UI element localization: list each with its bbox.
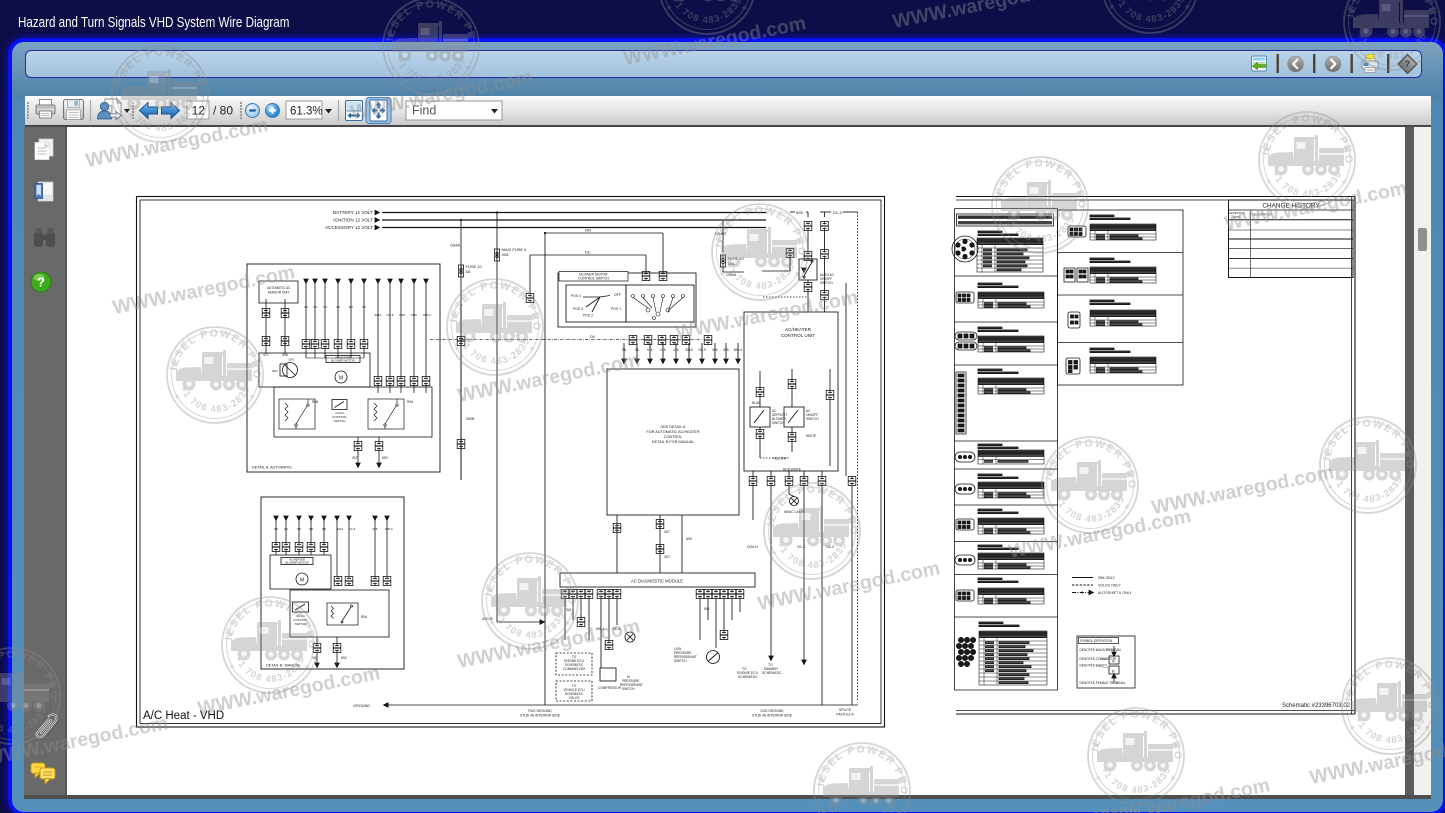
svg-text:DETAIL A: AUTOMATIC: DETAIL A: AUTOMATIC	[252, 466, 292, 470]
svg-text:DENOTES MALE TERMINAL: DENOTES MALE TERMINAL	[1080, 648, 1122, 652]
svg-text:6N5: 6N5	[411, 313, 417, 317]
svg-text:695-A: 695-A	[734, 348, 743, 352]
svg-text:G5AG: G5AG	[715, 231, 726, 236]
svg-text:POS 4: POS 4	[571, 294, 581, 298]
svg-text:M: M	[339, 376, 343, 382]
svg-text:BLOWER MOTOR: BLOWER MOTOR	[285, 561, 308, 565]
svg-text:OC-0: OC-0	[826, 545, 834, 549]
svg-text:ISM ONLY: ISM ONLY	[1098, 576, 1116, 580]
svg-text:SCHEMATIC: SCHEMATIC	[762, 671, 782, 675]
svg-text:POS 2: POS 2	[583, 314, 593, 318]
svg-text:RUS GROUND: RUS GROUND	[528, 709, 552, 713]
svg-text:ACCESSORY 12 VOLT: ACCESSORY 12 VOLT	[325, 225, 373, 230]
svg-text:I50: I50	[274, 527, 278, 531]
svg-text:S5: S5	[362, 305, 366, 309]
svg-text:SWITCH: SWITCH	[674, 659, 687, 663]
svg-text:SWITCH: SWITCH	[295, 622, 307, 626]
svg-text:OC-2: OC-2	[797, 545, 805, 549]
svg-text:I56: I56	[297, 527, 301, 531]
svg-text:C66: C66	[288, 358, 294, 362]
svg-text:DN: DN	[585, 228, 591, 233]
svg-text:300B: 300B	[466, 417, 475, 421]
svg-text:FOR AUTOMATIC AC/HEATER: FOR AUTOMATIC AC/HEATER	[646, 430, 699, 434]
svg-text:Schematic #23396703.02: Schematic #23396703.02	[1282, 703, 1351, 709]
svg-text:301A: 301A	[685, 348, 693, 352]
svg-text:RCB WHITE: RCB WHITE	[783, 468, 801, 472]
svg-text:DATE: DATE	[1233, 215, 1240, 219]
svg-text:SEE DETAIL A: SEE DETAIL A	[661, 425, 686, 429]
svg-text:POS 3: POS 3	[573, 307, 583, 311]
svg-text:/ 80: / 80	[213, 103, 233, 117]
svg-text:30D: 30D	[272, 369, 278, 373]
svg-text:I61: I61	[284, 527, 288, 531]
svg-text:STUD 48 INTERIOR SIDE: STUD 48 INTERIOR SIDE	[752, 714, 793, 718]
svg-text:DETAIL B: MANUAL: DETAIL B: MANUAL	[266, 664, 300, 668]
svg-text:OC-9: OC-9	[349, 527, 356, 531]
svg-text:307: 307	[312, 656, 318, 660]
svg-text:SENSOR UNIT: SENSOR UNIT	[268, 291, 290, 295]
svg-text:LNG GROUND: LNG GROUND	[761, 709, 785, 713]
svg-text:R5B: R5B	[312, 400, 318, 404]
svg-text:WHITE: WHITE	[806, 434, 816, 438]
svg-text:695-A: 695-A	[423, 313, 431, 317]
svg-text:SCHEMATIC: SCHEMATIC	[738, 675, 758, 679]
svg-text:12: 12	[192, 103, 206, 117]
svg-text:MVAC LAMP: MVAC LAMP	[784, 510, 804, 514]
svg-text:SWITCH: SWITCH	[622, 687, 635, 691]
svg-text:COMPRESSOR: COMPRESSOR	[598, 686, 622, 690]
svg-text:Find: Find	[412, 103, 436, 117]
svg-text:E3: E3	[349, 305, 353, 309]
svg-text:692: 692	[341, 656, 347, 660]
svg-text:300-A: 300-A	[612, 627, 621, 631]
svg-text:DC-0: DC-0	[833, 210, 843, 215]
svg-text:POS 1: POS 1	[611, 307, 621, 311]
svg-text:DESCRIPTION: DESCRIPTION	[1253, 213, 1272, 217]
svg-text:307: 307	[664, 530, 670, 534]
svg-text:DENOTES CAVITY: DENOTES CAVITY	[1080, 664, 1108, 668]
svg-text:C0: C0	[313, 305, 317, 309]
svg-text:A/C Heat - VHD: A/C Heat - VHD	[143, 710, 224, 722]
svg-text:BLUE: BLUE	[752, 401, 760, 405]
svg-text:40A: 40A	[502, 252, 509, 257]
svg-text:HGA-H: HGA-H	[747, 545, 758, 549]
svg-text:AC DIAGNOSTIC MODULE: AC DIAGNOSTIC MODULE	[631, 579, 683, 584]
svg-text:A: A	[1112, 659, 1115, 664]
svg-text:SWITCH: SWITCH	[772, 421, 785, 425]
svg-text:R5A: R5A	[407, 400, 414, 404]
svg-text:R5A: R5A	[361, 615, 368, 619]
svg-text:695: 695	[373, 527, 378, 531]
svg-text:CONTROL SWITCH: CONTROL SWITCH	[578, 277, 609, 281]
svg-text:PACK EJ-A: PACK EJ-A	[836, 713, 854, 717]
svg-text:AUTOMATIC AC: AUTOMATIC AC	[267, 286, 291, 290]
svg-text:BATTERY 12 VOLT: BATTERY 12 VOLT	[333, 210, 373, 215]
svg-text:DETAIL B FOR MANUAL: DETAIL B FOR MANUAL	[652, 440, 694, 444]
svg-text:301A: 301A	[337, 527, 344, 531]
svg-text:698: 698	[282, 353, 288, 357]
svg-text:CONTROL: CONTROL	[664, 435, 683, 439]
svg-text:5A: 5A	[466, 269, 471, 274]
svg-text:GROUND: GROUND	[353, 704, 370, 708]
svg-text:WWW.waregod.com: WWW.waregod.com	[891, 0, 1077, 33]
svg-text:I55: I55	[322, 527, 326, 531]
svg-text:DC: DC	[585, 250, 591, 255]
svg-text:61.3%: 61.3%	[290, 105, 323, 117]
svg-text:307: 307	[352, 456, 358, 460]
svg-text:300-B: 300-B	[482, 616, 493, 621]
svg-text:OC-8: OC-8	[386, 313, 393, 317]
svg-text:G95A: G95A	[726, 272, 737, 277]
svg-text:AC/HEATER: AC/HEATER	[785, 327, 812, 332]
svg-text:SWITCH: SWITCH	[820, 281, 833, 285]
svg-text:695: 695	[796, 210, 803, 215]
svg-text:M: M	[300, 578, 304, 584]
svg-text:STUD 48 INTERIOR SIDE: STUD 48 INTERIOR SIDE	[520, 714, 561, 718]
svg-text:301A: 301A	[374, 313, 381, 317]
svg-text:SWITCH: SWITCH	[334, 419, 346, 423]
svg-text:692: 692	[382, 456, 388, 460]
svg-text:617: 617	[263, 353, 269, 357]
svg-text:C2: C2	[304, 305, 308, 309]
svg-text:OFF: OFF	[614, 293, 621, 297]
svg-text:SYMBOL DEFINITION: SYMBOL DEFINITION	[1080, 639, 1113, 643]
svg-text:VOLVO ONLY: VOLVO ONLY	[1098, 584, 1121, 588]
svg-text:BLOWER MOTOR: BLOWER MOTOR	[331, 359, 354, 363]
svg-text:YELLOW: YELLOW	[773, 457, 786, 461]
svg-text:D8: D8	[590, 335, 595, 339]
svg-text:?: ?	[37, 275, 45, 290]
svg-text:6N8: 6N8	[399, 313, 405, 317]
svg-text:CHANGE HISTORY: CHANGE HISTORY	[1262, 203, 1320, 210]
svg-text:C6: C6	[336, 305, 340, 309]
svg-text:?: ?	[1404, 59, 1410, 69]
svg-text:G54A: G54A	[450, 243, 461, 248]
svg-text:N1: N1	[323, 305, 327, 309]
svg-text:692-A: 692-A	[596, 627, 605, 631]
svg-text:695-A: 695-A	[385, 527, 393, 531]
svg-text:B: B	[1112, 669, 1115, 674]
svg-text:307: 307	[664, 555, 670, 559]
svg-text:I58: I58	[309, 527, 313, 531]
svg-text:IGNITION 12 VOLT: IGNITION 12 VOLT	[333, 218, 373, 223]
svg-text:699: 699	[704, 607, 710, 611]
svg-text:302: 302	[566, 608, 572, 612]
svg-text:AUTOSHIFT II ONLY: AUTOSHIFT II ONLY	[1098, 591, 1132, 595]
svg-text:SPLICE: SPLICE	[839, 708, 852, 712]
svg-text:690: 690	[686, 537, 692, 541]
svg-text:SWITCH: SWITCH	[806, 417, 819, 421]
svg-text:CONTROL UNIT: CONTROL UNIT	[781, 333, 815, 338]
svg-text:10A: 10A	[728, 261, 735, 266]
svg-text:VOLVO: VOLVO	[569, 696, 580, 700]
svg-text:DENOTES FEMALE TERMINAL: DENOTES FEMALE TERMINAL	[1080, 681, 1126, 685]
svg-text:CUMMINS ISM: CUMMINS ISM	[563, 667, 585, 671]
